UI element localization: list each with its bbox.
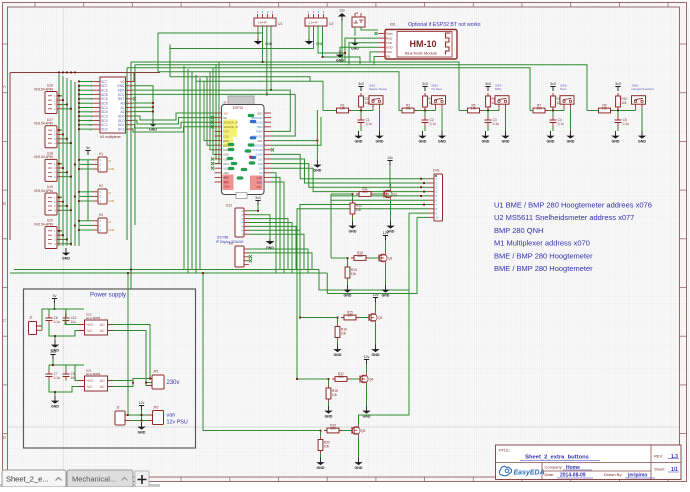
wire [385, 240, 387, 252]
junction [62, 234, 64, 236]
connector JP1 230v [147, 370, 164, 390]
svg-text:12v: 12v [364, 355, 370, 359]
junction [62, 99, 64, 101]
wire [79, 159, 93, 161]
ground [51, 396, 60, 408]
svg-text:SD2: SD2 [256, 186, 261, 189]
svg-text:Sheet:: Sheet: [654, 467, 666, 472]
wire [435, 109, 437, 111]
svg-text:Date:: Date: [545, 472, 555, 477]
junction [78, 124, 80, 126]
wire vertical net [199, 78, 201, 270]
wire [133, 113, 215, 120]
pin RXD of HM-10 [378, 37, 385, 39]
svg-text:GND: GND [109, 199, 115, 203]
wire [316, 110, 318, 160]
pin R7 of ESP32 [264, 140, 271, 142]
wire [374, 193, 384, 195]
wire [266, 26, 268, 94]
svg-text:H3: H3 [99, 213, 103, 217]
svg-text:XH2.54-4PIN: XH2.54-4PIN [34, 155, 53, 159]
junction [66, 205, 68, 207]
svg-text:SENSOR_VN: SENSOR_VN [224, 126, 239, 129]
wire [323, 110, 337, 112]
svg-text:10k: 10k [351, 272, 357, 276]
wire [79, 220, 93, 222]
svg-text:SC1: SC1 [118, 127, 125, 131]
junction [127, 272, 129, 274]
svg-text:U2: U2 [329, 22, 333, 26]
junction [141, 420, 143, 422]
connector J1 [29, 316, 43, 335]
junction [74, 225, 76, 227]
resistor R10 [616, 93, 628, 110]
ground [354, 458, 363, 470]
sheet tabs [0, 470, 160, 487]
svg-text:jeripimo: jeripimo [627, 473, 647, 479]
svg-text:GND: GND [51, 404, 59, 408]
svg-text:3v3: 3v3 [50, 350, 56, 354]
ground [324, 406, 333, 418]
pin SC6 of M1 [93, 89, 100, 91]
pin L15 of ESP32 [215, 176, 222, 178]
junction [149, 378, 151, 380]
switch SW1 [369, 83, 387, 108]
wire [374, 57, 378, 65]
pin SC2 of M1 [93, 124, 100, 126]
junction [328, 378, 330, 380]
svg-text:J3: J3 [355, 11, 359, 15]
junction [62, 134, 64, 136]
pink pads left [223, 175, 234, 191]
wire [370, 52, 378, 62]
wire [58, 74, 60, 246]
wire [133, 106, 154, 108]
no-connect X [133, 97, 136, 100]
junction [58, 163, 60, 165]
wire [169, 45, 171, 77]
svg-text:AC: AC [100, 379, 105, 383]
junction [54, 391, 56, 393]
svg-text:Q3: Q3 [378, 316, 382, 320]
junction [347, 257, 349, 259]
svg-text:IO13: IO13 [224, 177, 230, 180]
no-connect X [211, 116, 214, 119]
svg-text:0.1u: 0.1u [430, 122, 436, 126]
wire [249, 249, 308, 273]
wire [130, 414, 148, 416]
wire [390, 200, 392, 221]
wire [308, 26, 310, 39]
power flag 3v3 [422, 82, 428, 91]
svg-text:SC5: SC5 [101, 97, 108, 101]
wire [375, 324, 377, 345]
wire [372, 109, 374, 111]
wire SW1 feed [196, 81, 323, 110]
junction [78, 168, 80, 170]
junction [78, 229, 80, 231]
wire [133, 86, 154, 119]
svg-text:3v3: 3v3 [550, 82, 556, 86]
pin L2 of ESP32 [215, 117, 222, 119]
svg-text:GNC: GNC [257, 112, 263, 115]
svg-text:300: 300 [357, 254, 363, 258]
power flag 12v [387, 156, 393, 165]
connector J2 [115, 406, 130, 426]
pin L6 of ESP32 [215, 135, 222, 137]
junction [70, 142, 72, 144]
pin R3 of ESP32 [264, 121, 271, 123]
svg-text:Q4: Q4 [369, 377, 373, 381]
svg-text:GND: GND [138, 430, 146, 434]
wire SW3 feed [131, 62, 459, 111]
capacitor C5 [615, 116, 630, 127]
wire [323, 26, 361, 65]
wire [79, 102, 93, 104]
wire [79, 89, 93, 91]
switch SW3 [495, 83, 509, 108]
junction [66, 138, 68, 140]
svg-text:GND: GND [344, 293, 352, 297]
svg-text:IO34: IO34 [224, 131, 230, 134]
wire [59, 129, 62, 131]
pin 5 of U12 [244, 225, 249, 227]
wire [62, 171, 67, 173]
svg-text:Hoogte/Snelheid: Hoogte/Snelheid [632, 87, 655, 91]
pin 2 of CN1 [429, 182, 435, 184]
resistor R1 [334, 104, 352, 113]
pin L7 of ESP32 [215, 140, 222, 142]
svg-text:12v: 12v [339, 9, 345, 13]
junction [74, 72, 76, 74]
wire [360, 111, 362, 117]
wire [271, 177, 280, 269]
svg-text:GND: GND [419, 139, 427, 143]
wire [349, 43, 378, 65]
svg-text:IO32: IO32 [224, 140, 230, 143]
connector U18 XH2.54-4PIN [34, 152, 62, 182]
resistor R7 [530, 104, 548, 113]
svg-text:12v: 12v [373, 293, 379, 297]
capacitor C7 [46, 370, 61, 381]
power flag 12v [139, 401, 145, 410]
switch SW6 [560, 83, 574, 108]
wire short [49, 325, 55, 341]
connector J3 [352, 11, 365, 27]
svg-text:12v: 12v [387, 156, 393, 160]
wire [249, 223, 292, 274]
svg-text:10k: 10k [602, 107, 608, 111]
svg-text:M1 Multiplexer address x070: M1 Multiplexer address x070 [494, 239, 590, 248]
no-connect X [249, 255, 252, 258]
junction [270, 89, 272, 91]
pin 4 of CN1 [429, 191, 435, 193]
svg-text:0.1u: 0.1u [54, 376, 60, 380]
svg-text:10k: 10k [341, 332, 347, 336]
connector H2 [93, 184, 114, 204]
resistor R16 [335, 324, 347, 341]
svg-text:3V3: 3V3 [224, 112, 229, 115]
transistor Q3 [369, 312, 382, 324]
junction [70, 72, 72, 74]
wire [331, 257, 348, 259]
svg-text:TXD0: TXD0 [256, 126, 263, 129]
junction [617, 110, 619, 112]
svg-text:van: van [167, 413, 176, 419]
pin 7 of CN1 [429, 204, 435, 206]
ground [137, 422, 146, 434]
wire [59, 95, 62, 97]
connector H3 [93, 213, 114, 233]
ground [371, 345, 380, 357]
junction [54, 335, 56, 337]
junction [141, 414, 143, 416]
svg-text:ST7789: ST7789 [217, 236, 228, 240]
power flag 3v3 [550, 82, 556, 91]
wire gpio fan [213, 68, 215, 155]
junction [74, 164, 76, 166]
pin R4 of ESP32 [264, 126, 271, 128]
wire [359, 317, 369, 319]
junction [66, 239, 68, 241]
resistor R18 [326, 385, 338, 402]
junction [487, 110, 489, 112]
pin SC7 of M1 [93, 81, 100, 83]
power flag 5v [52, 294, 57, 303]
module U22 HLK-5M05 [79, 313, 113, 336]
svg-text:300: 300 [338, 375, 344, 379]
wire [385, 248, 387, 252]
junction [337, 317, 339, 319]
pin L8 of ESP32 [215, 144, 222, 146]
junction [78, 98, 80, 100]
svg-text:MOSI/G23: MOSI/G23 [251, 117, 263, 120]
transistor Q4 [360, 373, 373, 385]
svg-text:GND: GND [355, 466, 363, 470]
junction [130, 269, 132, 271]
wire [59, 196, 62, 198]
wire gpio fan [215, 65, 217, 159]
wire [147, 378, 150, 380]
wire [62, 133, 63, 135]
svg-text:IO14: IO14 [224, 163, 230, 166]
junction [145, 382, 147, 384]
capacitor C2 [422, 116, 437, 127]
wire [498, 109, 500, 111]
svg-text:BME / BMP 280 Hoogtemeter: BME / BMP 280 Hoogtemeter [494, 264, 593, 273]
svg-text:12v: 12v [383, 231, 389, 235]
svg-text:CLK/G18: CLK/G18 [253, 149, 264, 152]
svg-text:H2: H2 [99, 184, 103, 188]
pin State of HM-10 [378, 33, 385, 35]
wire [570, 109, 572, 131]
wire [249, 230, 300, 273]
pin L13 of ESP32 [215, 167, 222, 169]
connector CN1 [433, 169, 443, 222]
junction [424, 110, 426, 112]
junction [78, 111, 80, 113]
wire gpio fan [207, 77, 215, 145]
ground [481, 131, 490, 143]
no-connect X [249, 259, 252, 262]
wire [62, 142, 71, 144]
wire [62, 201, 63, 203]
svg-text:GND: GND [482, 139, 490, 143]
transistor Q1 [384, 188, 397, 200]
junction [78, 115, 80, 117]
wire [552, 111, 554, 117]
wire [441, 109, 443, 131]
wire [617, 111, 619, 117]
wire [347, 258, 349, 264]
wire [399, 110, 402, 112]
pin L1 of ESP32 [215, 112, 222, 114]
connector U12 (display) [226, 204, 244, 238]
wire [79, 94, 93, 96]
power flag 3v3 [358, 82, 364, 91]
pin GND of M1 [126, 85, 133, 87]
transistor Q5 [352, 425, 365, 437]
wire [62, 209, 71, 211]
svg-text:0.1u: 0.1u [54, 320, 60, 324]
ground [62, 248, 71, 260]
pin SD5 of M1 [93, 102, 100, 104]
junction [257, 210, 259, 212]
svg-text:AC: AC [100, 329, 105, 333]
svg-text:TXD: TXD [386, 41, 393, 45]
junction [299, 317, 301, 319]
connector H1 [93, 152, 114, 172]
wire [379, 109, 381, 131]
wire [74, 82, 76, 246]
wire [459, 110, 468, 112]
pin SC4 of M1 [93, 107, 100, 109]
pin 4 of U6 [244, 260, 249, 262]
wire [79, 163, 93, 165]
junction [78, 89, 80, 91]
svg-text:0.1u: 0.1u [366, 122, 372, 126]
no-connect X [211, 121, 214, 124]
svg-text:CMD: CMD [224, 186, 230, 189]
wire [62, 205, 67, 207]
pin V0 of M1 [126, 81, 133, 83]
wire [66, 78, 68, 246]
wire SCL net [133, 94, 296, 136]
svg-text:GND: GND [438, 139, 446, 143]
ground [149, 119, 158, 131]
pad ovals [248, 114, 255, 117]
wire [52, 359, 54, 365]
svg-text:GND: GND [372, 353, 380, 357]
svg-text:GND: GND [355, 139, 363, 143]
svg-text:SD2: SD2 [101, 127, 108, 131]
svg-text:SENSOR_VP: SENSOR_VP [224, 122, 239, 125]
svg-text:GND: GND [386, 46, 394, 50]
wire [366, 385, 368, 406]
wire [79, 98, 93, 100]
svg-text:CN1: CN1 [433, 169, 440, 173]
svg-text:5v: 5v [86, 146, 90, 150]
svg-text:ESP32: ESP32 [233, 106, 244, 110]
wire [366, 364, 368, 373]
wire [361, 27, 378, 30]
wire [328, 379, 330, 385]
pin R13 of ESP32 [264, 167, 271, 169]
svg-text:GND: GND [502, 139, 510, 143]
pin 5 of CN1 [429, 195, 435, 197]
pin A0 of M1 [126, 102, 133, 104]
wire [79, 128, 93, 130]
svg-text:HM-10: HM-10 [409, 39, 436, 49]
junction [62, 201, 64, 203]
wire [262, 26, 264, 62]
svg-text:U2 MS5611 Snelheidsmeter addre: U2 MS5611 Snelheidsmeter address x077 [494, 213, 634, 222]
wire [270, 26, 272, 90]
junction [316, 140, 318, 142]
wire [390, 184, 392, 188]
wire to CN1 pin 1 [271, 154, 429, 178]
capacitor C3 [485, 116, 500, 127]
wire [300, 205, 429, 318]
svg-text:GND: GND [117, 84, 125, 88]
svg-text:Sheet_2_e...: Sheet_2_e... [6, 475, 49, 484]
IC M1 multiplexer [100, 77, 126, 139]
junction [78, 94, 80, 96]
ground flag near U12 [266, 239, 275, 250]
wire [146, 383, 147, 386]
svg-text:10k: 10k [536, 107, 542, 111]
svg-text:GND: GND [325, 414, 333, 418]
svg-text:GNC: GNC [257, 140, 263, 143]
wire [505, 109, 507, 131]
junction [423, 204, 425, 206]
pin R10 of ESP32 [264, 153, 271, 155]
wire [87, 160, 89, 221]
svg-text:001: 001 [390, 23, 396, 27]
svg-text:230v: 230v [167, 380, 180, 386]
svg-text:BMP 280 QNH: BMP 280 QNH [494, 226, 543, 235]
switch SW2 [432, 83, 446, 108]
pin R14 of ESP32 [264, 172, 271, 174]
wire [79, 195, 93, 197]
ground [362, 406, 371, 418]
svg-text:GND: GND [382, 293, 390, 297]
wire [352, 217, 354, 221]
wire [341, 21, 343, 62]
svg-text:RST: RST [118, 97, 125, 101]
resistor R8 [551, 93, 562, 110]
pin SC5 of M1 [93, 98, 100, 100]
wire [79, 120, 93, 122]
junction [320, 430, 322, 432]
wire SW2 feed [158, 72, 399, 111]
svg-text:SC3: SC3 [101, 114, 108, 118]
wire [271, 173, 276, 273]
junction [127, 414, 129, 416]
svg-text:GND: GND [638, 139, 646, 143]
pin L11 of ESP32 [215, 158, 222, 160]
wire [79, 85, 93, 87]
wire [48, 365, 50, 370]
pin 3 of U6 [244, 256, 249, 258]
wire [49, 364, 84, 366]
junction [420, 195, 422, 197]
wire [113, 379, 150, 381]
pin A1 of M1 [126, 107, 133, 109]
wire [337, 318, 339, 324]
svg-text:GND: GND [336, 58, 344, 62]
resistor R4 [423, 93, 434, 110]
